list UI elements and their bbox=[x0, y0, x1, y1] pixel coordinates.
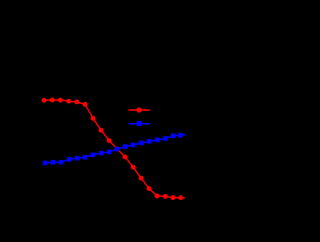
legend red line sample bbox=[128, 109, 150, 111]
red data series line bbox=[44, 100, 185, 198]
legend red circle marker bbox=[136, 107, 141, 112]
blue series square markers bbox=[43, 133, 183, 165]
red series circle markers bbox=[42, 98, 184, 201]
blue data series line bbox=[45, 135, 185, 163]
legend blue square marker bbox=[137, 121, 142, 126]
legend blue line sample bbox=[128, 123, 150, 125]
